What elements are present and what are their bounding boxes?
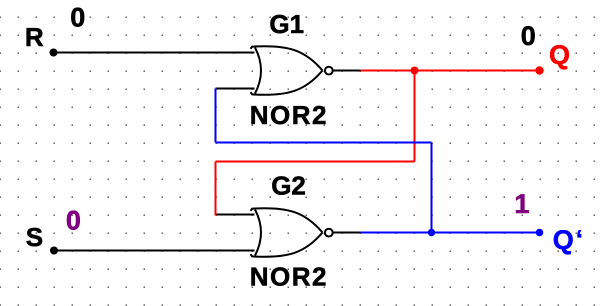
svg-text:NOR2: NOR2: [250, 262, 328, 292]
wire Q net feedback vertical to G2 input: [215, 162, 217, 216]
wire Q' net feedback horizontal: [216, 142, 432, 144]
NOR gate U1 (G1) body: [251, 46, 333, 95]
svg-text:S: S: [26, 222, 43, 252]
wire R input: [54, 52, 255, 54]
wire G2 upper input stub: [216, 214, 255, 216]
svg-text:1: 1: [514, 189, 529, 219]
svg-text:0: 0: [521, 21, 536, 51]
wire G2 output stub: [334, 232, 361, 234]
svg-text:NOR2: NOR2: [250, 100, 328, 130]
wire Q' net vertical right: [431, 143, 433, 233]
wire G1 output stub: [334, 70, 361, 72]
svg-text:Q‘: Q‘: [553, 225, 583, 255]
wire Q net vertical drop: [414, 71, 416, 162]
wire Q net feedback horizontal: [216, 161, 415, 163]
wire Q' net vertical from G1 lower input: [215, 89, 217, 143]
node Q junction: [411, 67, 419, 75]
svg-text:R: R: [25, 22, 44, 52]
wire G1 lower input stub: [216, 88, 255, 90]
wire Q' net horizontal (G2 output to Q'): [361, 232, 540, 234]
svg-text:Q: Q: [549, 40, 570, 70]
svg-text:0: 0: [66, 205, 81, 235]
node Q' junction: [428, 229, 435, 236]
node R terminal: [50, 49, 58, 57]
svg-text:0: 0: [70, 3, 85, 33]
wire Q net horizontal (G1 output to Q): [361, 70, 540, 72]
node Q terminal: [535, 66, 543, 74]
svg-text:G2: G2: [271, 171, 306, 201]
wire S input: [54, 250, 255, 252]
NOR gate U2 (G2) body: [251, 208, 333, 257]
node S terminal: [50, 247, 58, 255]
node Q' terminal: [536, 229, 544, 237]
svg-text:G1: G1: [269, 9, 304, 39]
